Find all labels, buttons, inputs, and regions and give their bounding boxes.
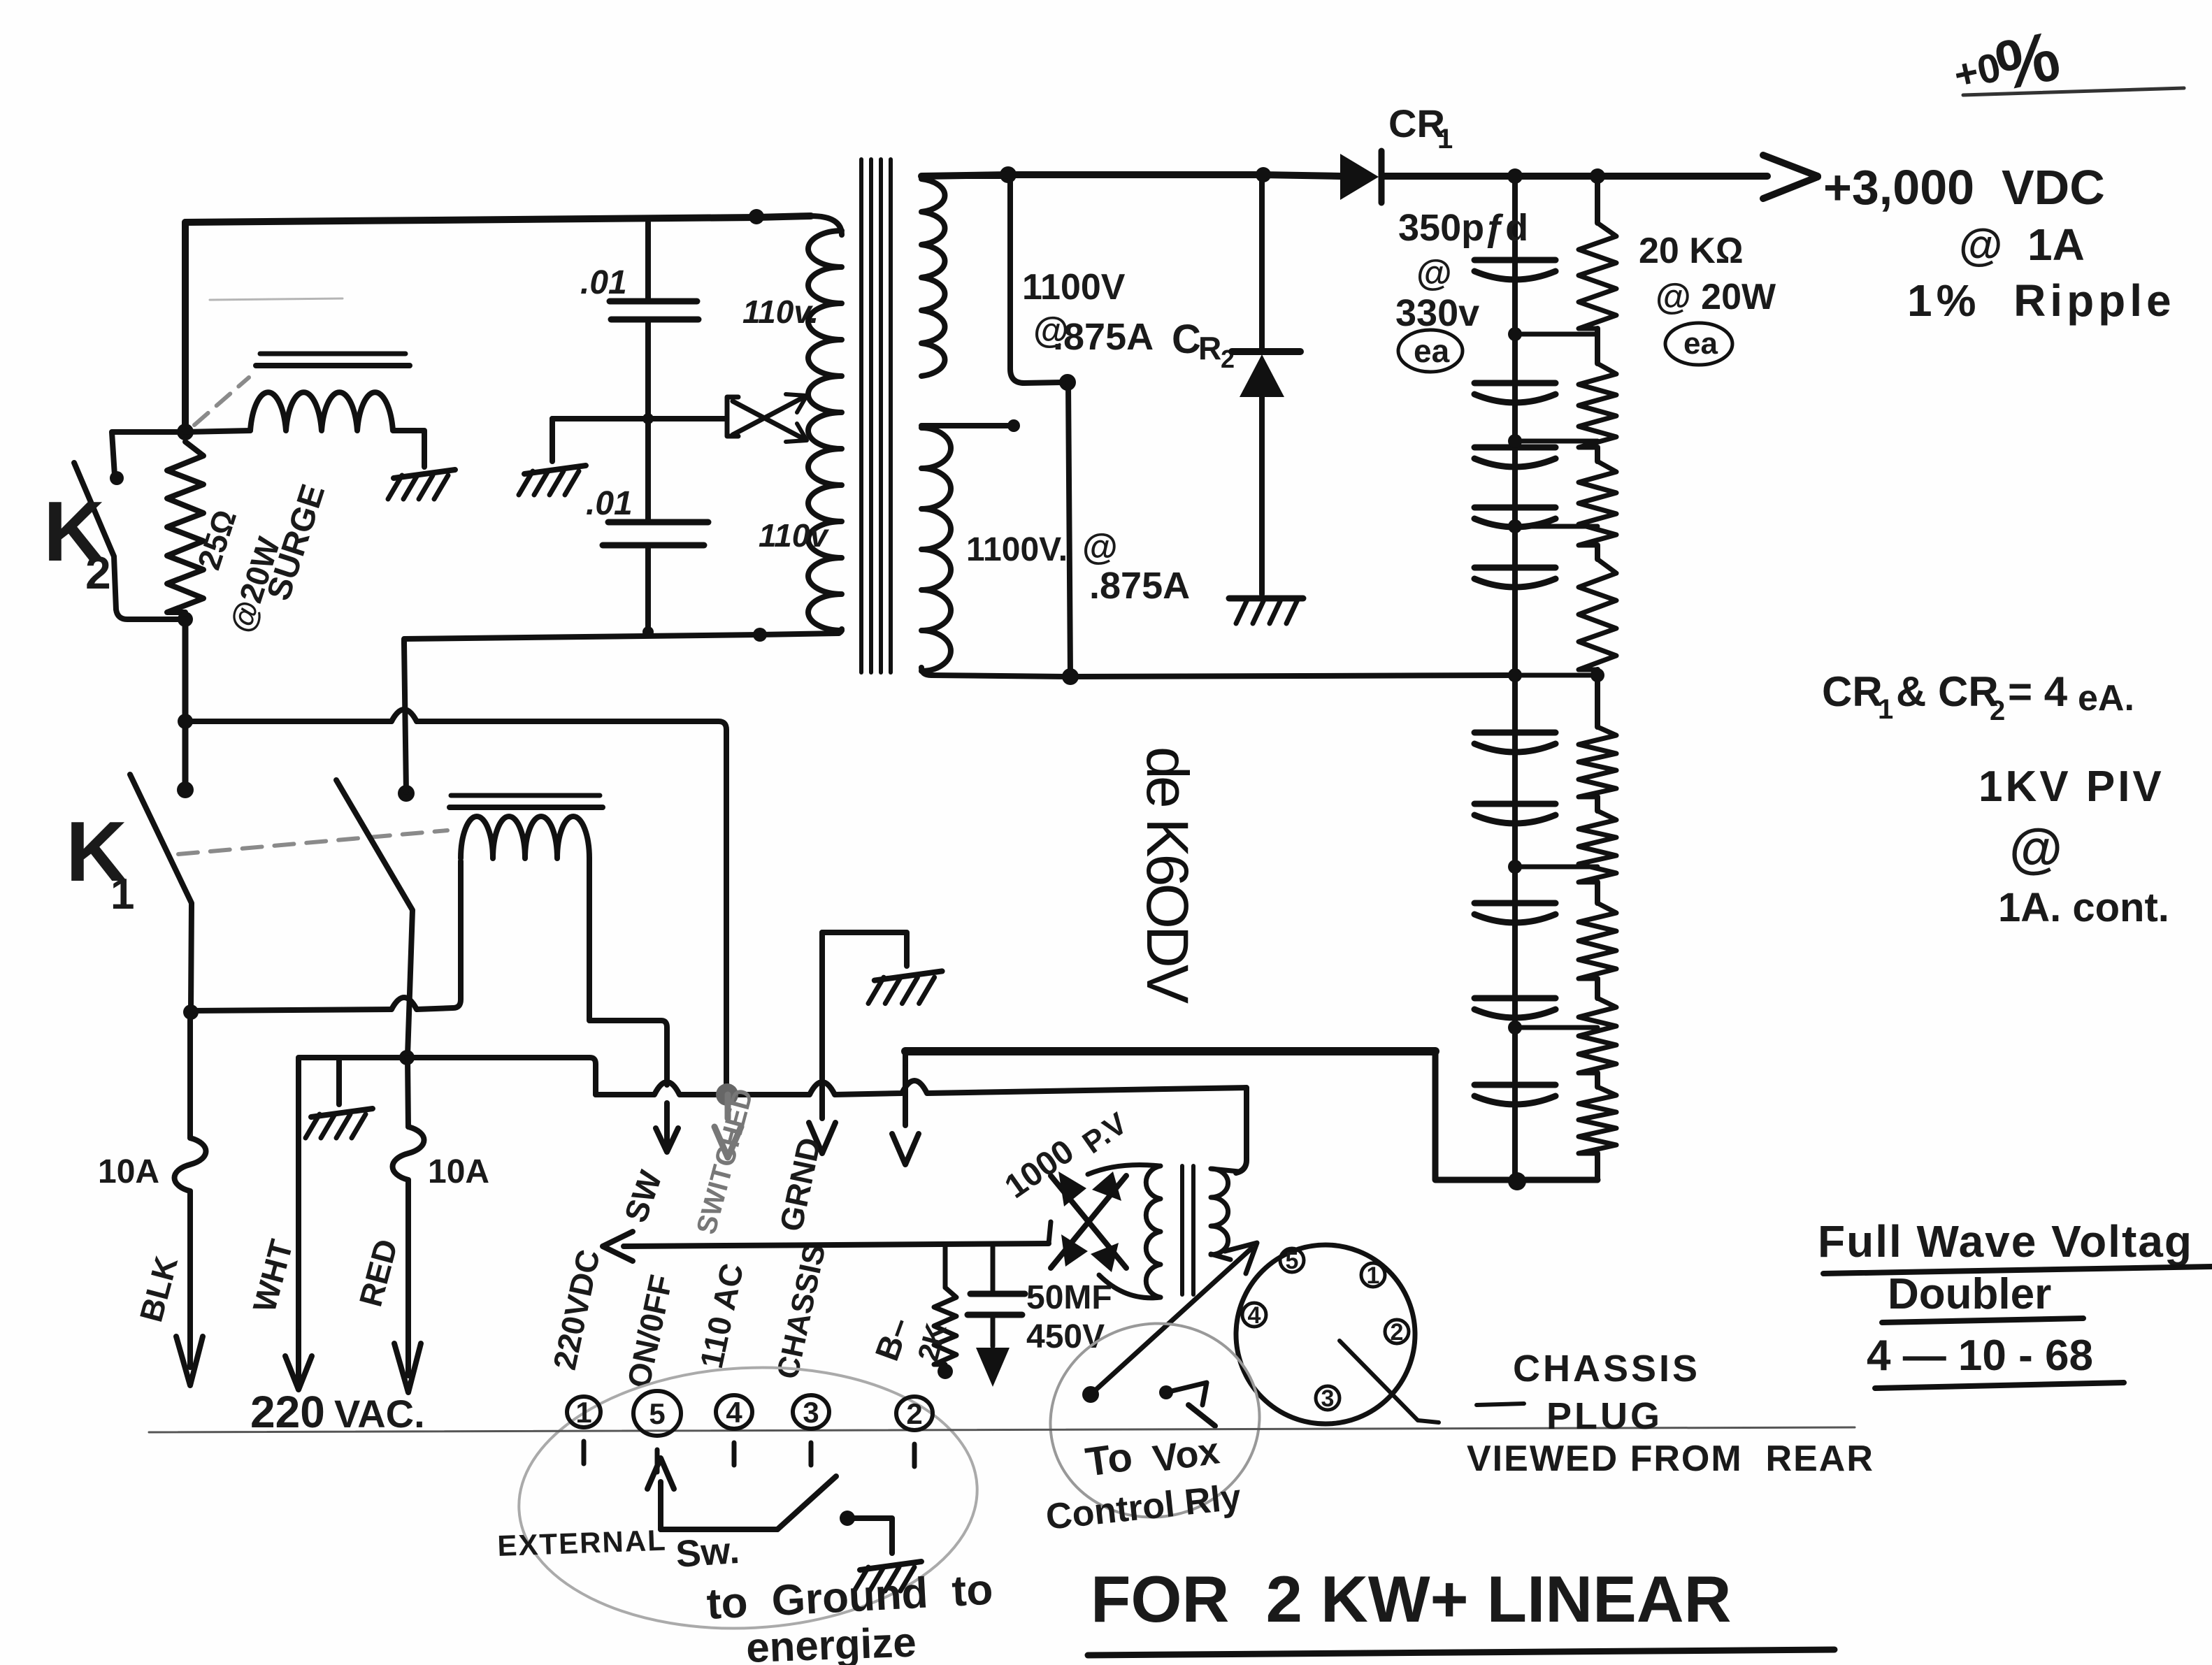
output arrow	[1763, 155, 1818, 199]
transformer T2 left winding	[1088, 1165, 1161, 1298]
tap selector bracket	[727, 397, 738, 436]
node tap-junction	[642, 413, 654, 424]
chassis plug	[1236, 1245, 1415, 1424]
label WHT	[245, 1236, 299, 1316]
node secondary-top	[1000, 166, 1017, 183]
terminal arrow ON/OFF	[656, 1103, 678, 1152]
svg-text:10A: 10A	[98, 1153, 159, 1190]
svg-text:.01: .01	[580, 264, 627, 301]
svg-text:1100V.: 1100V.	[966, 531, 1068, 568]
wire	[404, 633, 839, 643]
svg-text:110v: 110v	[759, 517, 829, 554]
diode CR1 label	[1388, 101, 1453, 154]
svg-text:2: 2	[1391, 1319, 1404, 1346]
rule line	[149, 1427, 1855, 1432]
dashed link K1	[178, 830, 447, 854]
wire	[624, 1244, 1049, 1246]
chassis plug pins	[1242, 1248, 1409, 1412]
label 110v	[742, 294, 819, 330]
svg-text:2: 2	[1990, 695, 2005, 726]
node K2-contact	[110, 471, 124, 485]
fuse 10A left	[175, 1012, 206, 1367]
label @	[2009, 817, 2062, 879]
svg-text:1100V: 1100V	[1022, 267, 1126, 308]
label 1A cont	[1998, 885, 2169, 930]
terminal arrow 220VDC	[603, 1232, 633, 1261]
ground	[1229, 598, 1303, 624]
svg-text:CR: CR	[1822, 668, 1883, 715]
label 1KV PIV	[1978, 763, 2164, 811]
wire	[1435, 1051, 1597, 1180]
relay K1 coil core	[450, 795, 603, 807]
svg-text:10A: 10A	[428, 1153, 489, 1190]
label energize	[745, 1619, 917, 1665]
label .01	[586, 485, 633, 522]
transformer T2 right winding	[1211, 1169, 1239, 1260]
resistor 25-ohm surge	[167, 442, 203, 612]
label CHASSIS PLUG	[1513, 1348, 1700, 1437]
label 2K	[911, 1320, 952, 1364]
svg-text:energize: energize	[745, 1619, 917, 1665]
wire	[905, 1047, 1435, 1055]
svg-text:2: 2	[906, 1397, 922, 1430]
node cap-bottom	[642, 626, 654, 637]
vox contact	[1159, 1383, 1215, 1426]
resistor 2K	[934, 1245, 956, 1364]
bridge rectifier 1000PIV	[1051, 1172, 1126, 1272]
node primary-bottom	[753, 628, 767, 642]
wire	[589, 858, 667, 1085]
label 1100V@.875A lower	[966, 527, 1190, 607]
capacitor 50MF	[968, 1244, 1025, 1387]
wire	[407, 1058, 596, 1095]
svg-text:@ 1A: @ 1A	[1959, 219, 2085, 270]
title date 4-10-68	[1867, 1332, 2124, 1388]
svg-text:C: C	[1172, 317, 1201, 362]
wire	[182, 222, 189, 432]
label SURGE	[260, 480, 332, 605]
svg-text:.875A: .875A	[1053, 316, 1154, 358]
ground	[854, 1562, 921, 1591]
label 1000PIV	[998, 1106, 1134, 1206]
label BLK	[132, 1253, 185, 1326]
node K1-contact2	[398, 785, 415, 802]
relay K2 label	[43, 484, 111, 598]
svg-text:.875A: .875A	[1089, 565, 1190, 607]
wire	[552, 416, 726, 421]
diode CR2 label	[1172, 317, 1235, 373]
terminal arrow B-	[892, 1051, 919, 1165]
svg-text:+3,000 VDC: +3,000 VDC	[1823, 160, 2105, 215]
node center-tap	[1059, 374, 1076, 391]
ground	[306, 1109, 373, 1138]
diode CR2	[1232, 175, 1300, 594]
annotation circle To-Vox	[1033, 1304, 1278, 1536]
svg-text:eA.: eA.	[2078, 678, 2134, 719]
label 50MF 450V	[1026, 1279, 1112, 1355]
label 110 AC	[693, 1260, 750, 1371]
svg-text:@ 20W: @ 20W	[1656, 277, 1776, 317]
terminal arrow 110AC	[714, 1095, 741, 1158]
wire	[182, 619, 189, 788]
title Full Wave Voltage	[1818, 1216, 2212, 1274]
wire	[1236, 1160, 1247, 1173]
label 110v	[759, 517, 829, 554]
svg-text:& CR: & CR	[1896, 668, 1999, 715]
fuse 10A right	[393, 1058, 424, 1376]
svg-text:de K6ODV: de K6ODV	[1135, 747, 1200, 1004]
resistor bank 20K string	[1579, 176, 1616, 1180]
node mid-left	[178, 714, 193, 729]
svg-text:4: 4	[726, 1396, 742, 1429]
node bottom-tie	[1508, 1172, 1526, 1190]
svg-text:1: 1	[1437, 124, 1453, 154]
label CR1 CR2 4ea	[1822, 668, 2134, 726]
svg-text:1KV PIV: 1KV PIV	[1978, 763, 2164, 811]
terminal arrow CHASSIS-GRND	[809, 932, 835, 1153]
diode CR1	[1340, 151, 1381, 203]
svg-text:1: 1	[1367, 1262, 1380, 1289]
node neutral-junction	[399, 1050, 415, 1065]
svg-text:4 — 10 - 68: 4 — 10 - 68	[1867, 1332, 2093, 1380]
svg-text:VAC.: VAC.	[334, 1392, 425, 1436]
title FOR 2KW LINEAR	[1088, 1562, 1834, 1655]
label 25-ohm	[190, 505, 243, 574]
label to Ground to	[705, 1566, 994, 1629]
tap arrow up	[733, 394, 807, 435]
svg-text:R: R	[1198, 330, 1221, 366]
label .01	[580, 264, 627, 301]
label Control Rly	[1044, 1477, 1243, 1538]
terminal strip outline	[512, 1356, 984, 1640]
svg-text:1: 1	[1878, 694, 1893, 725]
svg-text:110v.: 110v.	[742, 294, 819, 330]
svg-text:20 KΩ: 20 KΩ	[1639, 231, 1744, 271]
transformer T1 primary	[808, 216, 842, 633]
svg-text:Full Wave Voltag: Full Wave Voltag	[1818, 1216, 2193, 1267]
svg-text:EXTERNAL: EXTERNAL	[497, 1524, 668, 1562]
node center-tap-bottom	[1062, 668, 1079, 685]
svg-text:1A. cont.: 1A. cont.	[1998, 885, 2169, 930]
label 20K@20W	[1639, 231, 1776, 365]
node K2-junction	[177, 424, 194, 440]
label 220VAC	[250, 1387, 425, 1437]
svg-text:PLUG: PLUG	[1546, 1395, 1662, 1437]
svg-text:@: @	[1416, 253, 1452, 294]
svg-text:5: 5	[649, 1397, 665, 1430]
transformer T1 secondary upper	[921, 175, 1063, 383]
svg-text:CR: CR	[1388, 101, 1445, 145]
title Doubler	[1882, 1270, 2083, 1322]
terminal pins	[567, 1391, 933, 1472]
node CR2-top	[1256, 167, 1271, 182]
node K1-bottom1	[183, 1004, 199, 1020]
wire	[394, 431, 424, 467]
svg-text:CHASSIS: CHASSIS	[1513, 1348, 1700, 1390]
svg-text:5: 5	[1286, 1248, 1299, 1274]
wire	[921, 175, 1767, 176]
node surge-bottom	[178, 612, 193, 627]
svg-text:220: 220	[250, 1387, 325, 1437]
svg-text:.01: .01	[586, 485, 633, 522]
svg-text:50MF: 50MF	[1026, 1279, 1112, 1316]
svg-text:ea: ea	[1683, 326, 1718, 361]
relay K1 coil	[461, 816, 589, 858]
label 220VDC	[546, 1246, 607, 1373]
label VIEWED FROM REAR	[1467, 1439, 1874, 1479]
relay K2 switch blade	[74, 463, 185, 619]
label SWITCHED	[691, 1086, 759, 1237]
wire	[210, 298, 343, 300]
relay K2 coil core	[256, 354, 410, 366]
capacitor bank 350pfd string	[1474, 176, 1556, 1180]
ground	[868, 971, 942, 1003]
relay K1 switch blade 1	[130, 774, 192, 1009]
svg-text:Doubler: Doubler	[1888, 1270, 2051, 1318]
wire	[336, 1058, 342, 1104]
wire	[404, 643, 406, 792]
transformer T1 secondary lower	[921, 419, 1070, 677]
label EXTERNAL Sw	[497, 1524, 741, 1576]
label +3000VDC	[1823, 160, 2105, 215]
svg-text:4: 4	[1248, 1302, 1261, 1329]
label CHASSIS	[770, 1241, 833, 1383]
transformer T1 core	[861, 159, 891, 672]
wire	[185, 216, 811, 222]
svg-text:450V: 450V	[1026, 1318, 1105, 1355]
svg-text:3: 3	[1321, 1385, 1335, 1412]
relay K1 switch blade 2	[336, 780, 412, 1055]
svg-text:= 4: = 4	[2008, 668, 2068, 715]
capacitor .01 upper	[610, 222, 698, 417]
label 1100V@.875A upper	[1022, 267, 1154, 358]
svg-text:FOR 2 KW+ LINEAR: FOR 2 KW+ LINEAR	[1091, 1562, 1732, 1636]
label @1A	[1959, 219, 2085, 270]
wire	[1070, 675, 1515, 677]
watermark de K6ODV	[1135, 747, 1200, 1004]
capacitor .01 lower	[603, 419, 708, 631]
label GRND	[773, 1134, 828, 1234]
node 2K-bottom	[938, 1364, 953, 1379]
label 10A	[98, 1153, 159, 1190]
label To Vox	[1083, 1429, 1222, 1485]
tap arrow down	[733, 401, 807, 442]
svg-text:350pƒd: 350pƒd	[1398, 207, 1528, 249]
node res-mid	[1590, 668, 1604, 682]
label 10A	[428, 1153, 489, 1190]
node primary-top	[749, 209, 764, 224]
wire	[191, 861, 461, 1011]
svg-text:ea: ea	[1414, 333, 1450, 369]
label 1% Ripple	[1907, 275, 2176, 326]
node K1-contact1	[177, 781, 194, 798]
label B-	[869, 1313, 919, 1366]
label SW	[617, 1165, 669, 1227]
wire ties	[1508, 327, 1597, 1035]
wire	[185, 709, 726, 1090]
label @20W	[222, 533, 287, 637]
wire	[299, 1058, 407, 1370]
terminal arrow WHT	[285, 1332, 312, 1390]
label RED	[352, 1235, 404, 1310]
ground	[388, 470, 455, 499]
wire	[822, 932, 907, 966]
node capbank-top	[1507, 168, 1523, 184]
dashed link K2	[194, 377, 249, 425]
external switch	[647, 1458, 892, 1553]
svg-text:2: 2	[85, 547, 111, 598]
svg-text:330v: 330v	[1395, 292, 1479, 334]
svg-text:1: 1	[575, 1396, 591, 1429]
relay K2 coil	[185, 392, 393, 432]
wire	[1049, 1222, 1051, 1244]
svg-text:1% Ripple: 1% Ripple	[1907, 275, 2176, 326]
svg-text:@: @	[1082, 527, 1118, 568]
wire	[1068, 382, 1070, 675]
label +0%	[1950, 16, 2184, 106]
transformer T2 core	[1182, 1166, 1193, 1295]
terminal arrow RED	[394, 1343, 421, 1392]
wire	[596, 1081, 1247, 1173]
terminal arrow BLK	[176, 1336, 203, 1385]
label ON/OFF	[620, 1271, 680, 1391]
svg-text:To: To	[1083, 1434, 1135, 1485]
node resbank-top	[1590, 168, 1605, 184]
wire	[112, 432, 185, 475]
node 110AC-junction	[716, 1083, 738, 1106]
relay K1 label	[66, 804, 134, 918]
svg-text:3: 3	[803, 1396, 819, 1429]
svg-text:Sw.: Sw.	[675, 1529, 741, 1576]
svg-text:VIEWED FROM REAR: VIEWED FROM REAR	[1467, 1439, 1874, 1479]
svg-text:@: @	[2009, 817, 2062, 879]
wire to VOX relay	[1082, 1243, 1257, 1403]
ground	[519, 419, 586, 495]
label 350pfd	[1395, 207, 1528, 372]
svg-text:1: 1	[110, 870, 134, 918]
leader line	[1340, 1341, 1524, 1422]
